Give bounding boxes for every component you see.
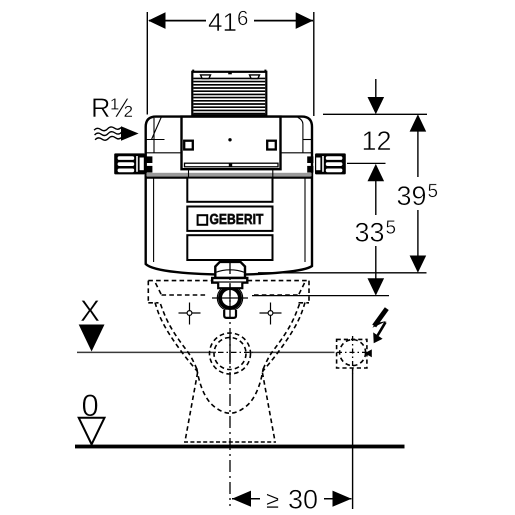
right supply connector — [307, 153, 385, 174]
X level line — [77, 351, 216, 353]
svg-text:39: 39 — [397, 181, 427, 211]
dim 39.5 upper arrowhead — [410, 114, 427, 131]
dim >=30 right arrowhead — [333, 491, 352, 507]
wing seams — [146, 117, 312, 153]
svg-text:5: 5 — [428, 181, 439, 202]
inspection window — [182, 117, 281, 170]
electrical box — [337, 336, 374, 374]
svg-text:GEBERIT: GEBERIT — [210, 212, 264, 228]
svg-text:33: 33 — [355, 218, 385, 248]
right dimensions — [252, 79, 427, 296]
dim 41.6 left arrowhead — [148, 12, 165, 29]
lightning bolt — [372, 309, 387, 344]
X level filled triangle marker — [79, 325, 105, 352]
bottom dimension >=30 — [232, 498, 352, 500]
left supply connector — [114, 153, 152, 174]
protection box hatched — [192, 70, 266, 116]
dim 39.5 lower arrowhead — [410, 256, 427, 273]
dim 33.5 lower arrowhead — [368, 278, 385, 295]
top band — [147, 169, 312, 177]
WC pan dashed outline — [148, 281, 309, 443]
svg-text:12: 12 — [362, 126, 392, 156]
svg-text:30: 30 — [288, 484, 318, 514]
GEBERIT logo — [198, 212, 264, 228]
inner side lines — [153, 177, 155, 263]
three panels — [187, 178, 272, 260]
svg-text:R½: R½ — [91, 93, 133, 123]
dim >=30 left arrowhead — [232, 491, 251, 507]
dim 12/33.5 middle arrowhead — [368, 164, 385, 181]
bottom vertical from ebox — [352, 368, 354, 509]
svg-text:5: 5 — [386, 218, 397, 239]
dim 12 upper arrowhead — [368, 97, 385, 114]
0 level open triangle marker — [79, 418, 105, 445]
svg-text:6: 6 — [237, 7, 248, 30]
floor line — [75, 445, 405, 449]
water inlet arrow — [121, 126, 139, 141]
svg-text:41: 41 — [208, 7, 237, 37]
svg-text:≥: ≥ — [266, 487, 279, 514]
dim 41.6 right arrowhead — [296, 12, 313, 29]
flush valve assembly — [212, 262, 248, 318]
svg-text:X: X — [80, 295, 100, 328]
DIM41 : top dimension 41/6 — [147, 12, 313, 116]
fixing crosshairs — [179, 303, 201, 325]
pan base dashed line — [184, 441, 276, 443]
connection point arrow at electrical box — [365, 349, 372, 357]
cistern body — [146, 117, 312, 275]
center line — [229, 262, 231, 506]
water wave arrow — [94, 126, 122, 141]
